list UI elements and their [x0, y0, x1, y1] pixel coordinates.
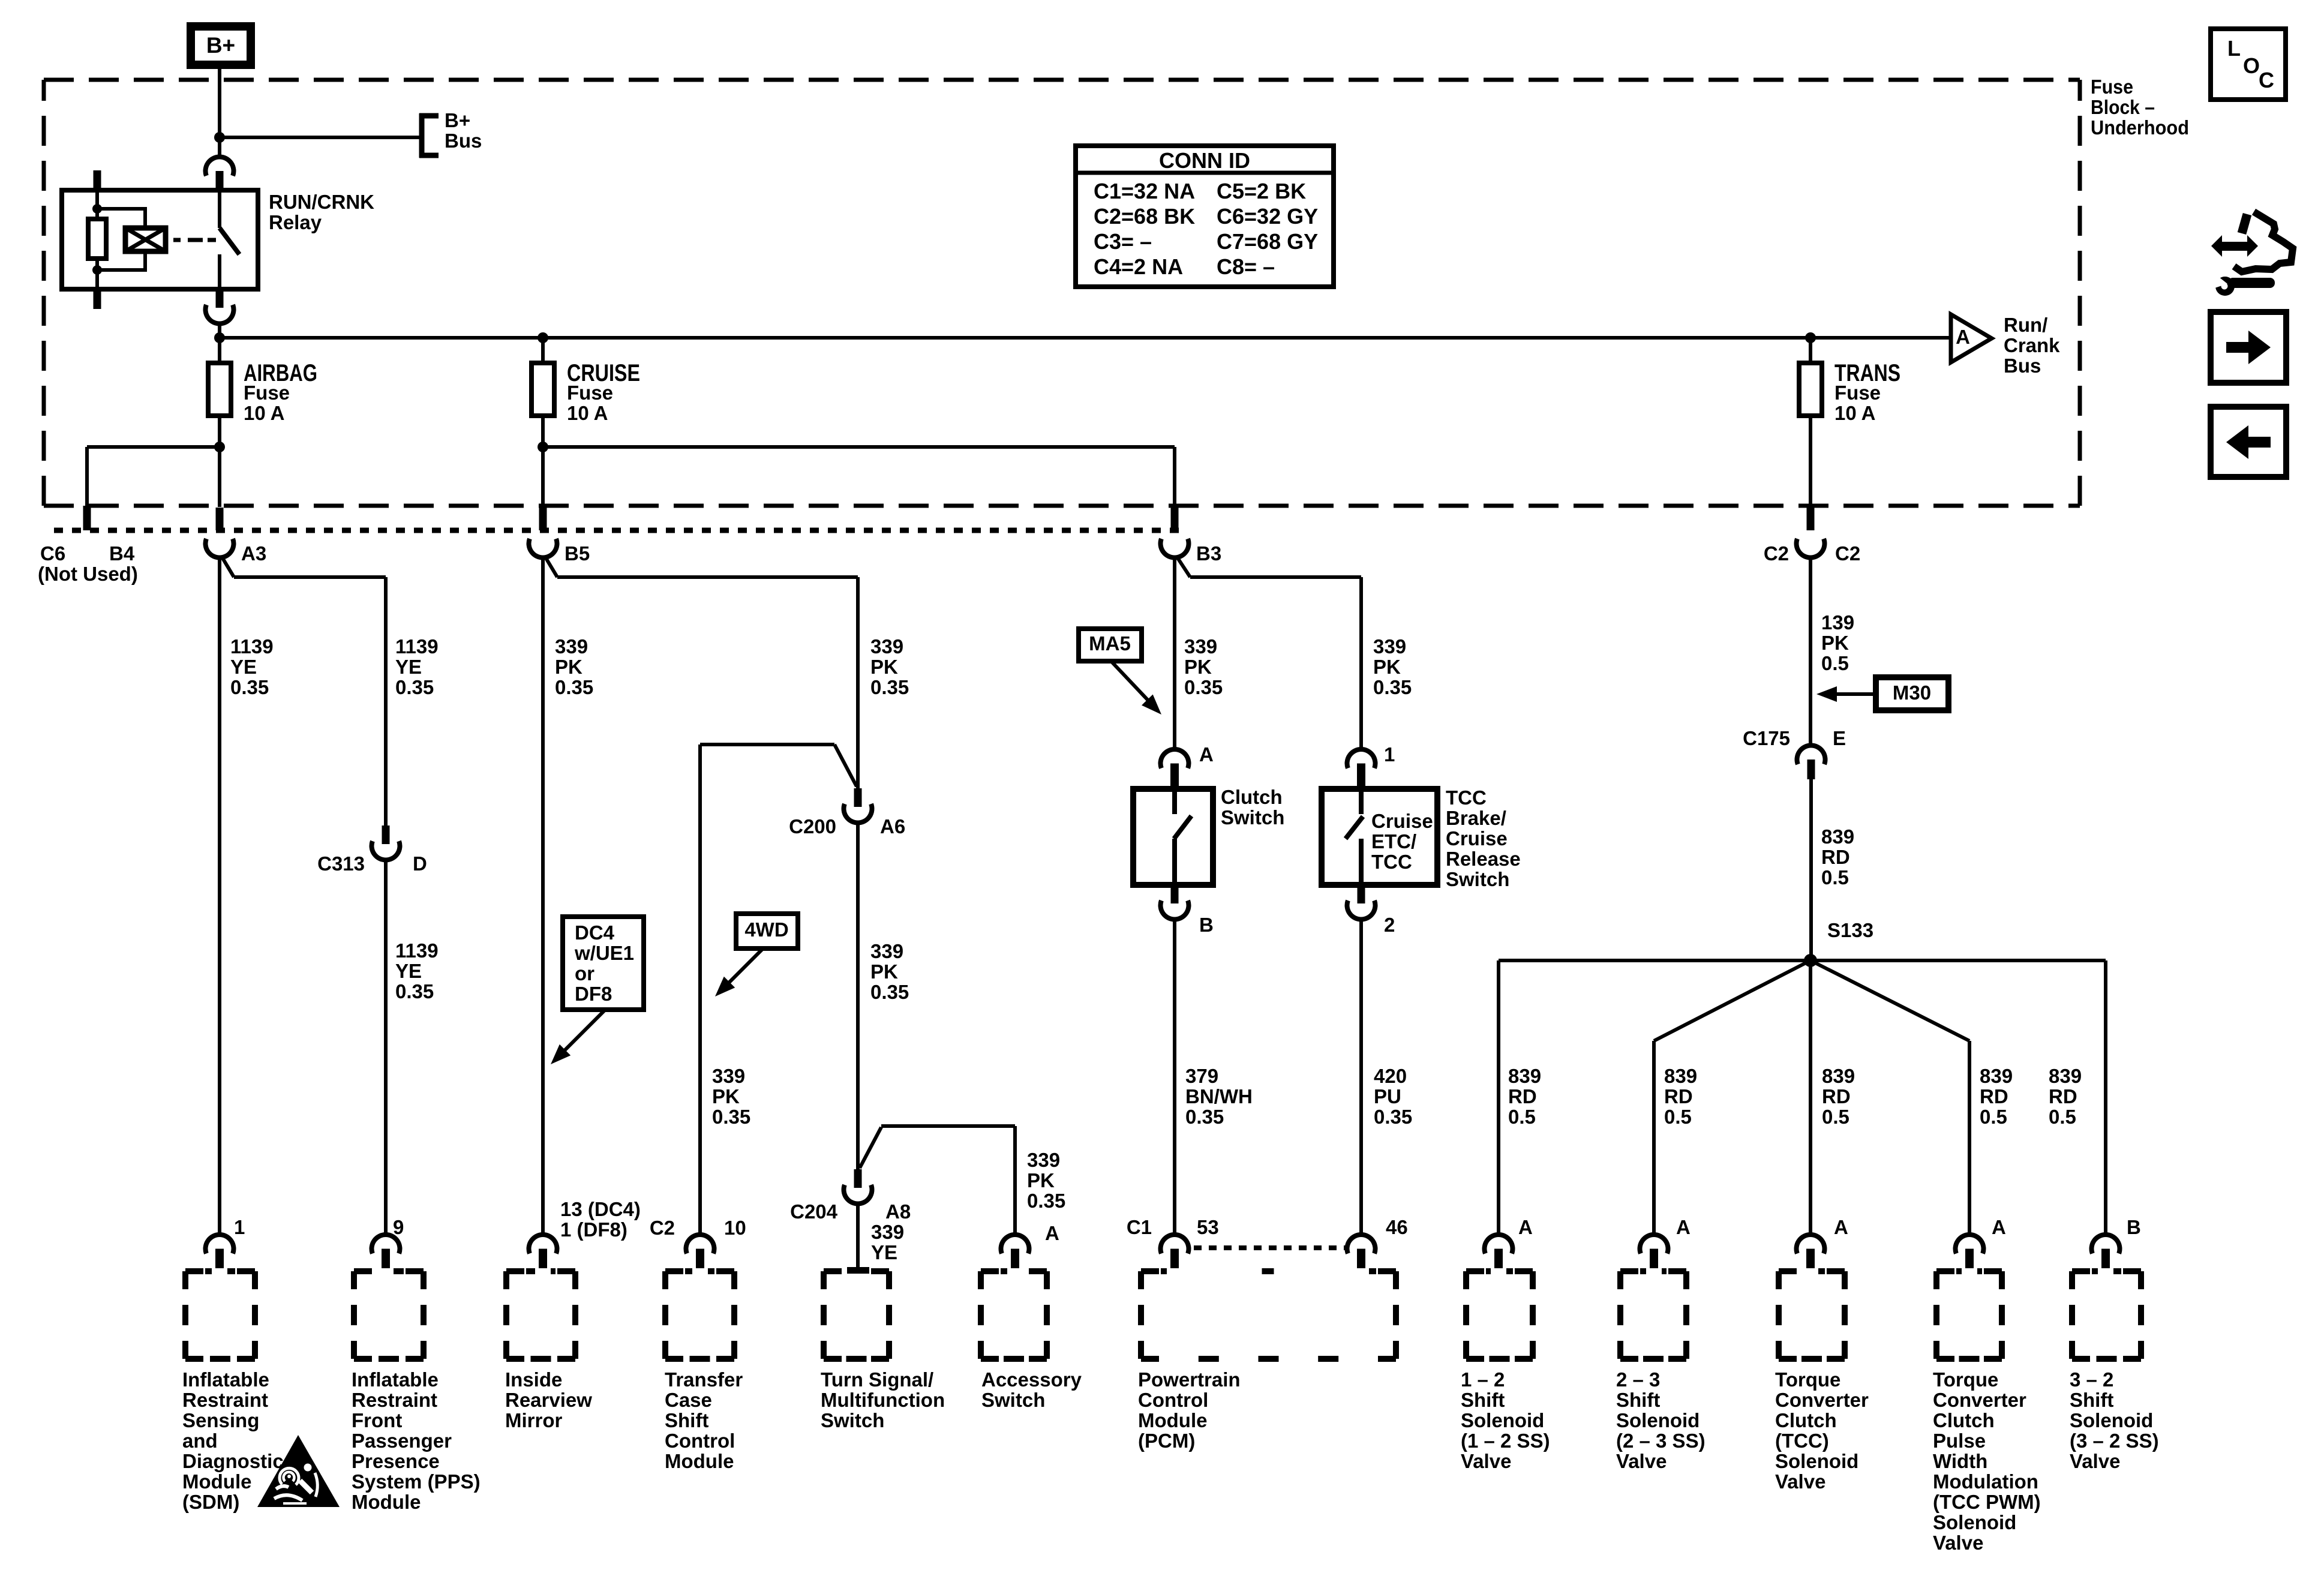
svg-text:B+: B+: [445, 109, 470, 131]
svg-text:Inflatable: Inflatable: [182, 1368, 269, 1391]
svg-text:Valve: Valve: [1461, 1450, 1511, 1472]
svg-text:339: 339: [870, 635, 903, 658]
svg-text:(TCC): (TCC): [1775, 1430, 1829, 1452]
svg-text:(SDM): (SDM): [182, 1491, 239, 1513]
svg-text:1139: 1139: [230, 635, 274, 658]
svg-text:3 – 2: 3 – 2: [2070, 1368, 2113, 1391]
svg-text:RD: RD: [2049, 1085, 2077, 1107]
svg-text:Clutch: Clutch: [1775, 1409, 1837, 1431]
svg-text:379: 379: [1185, 1065, 1218, 1087]
svg-text:Converter: Converter: [1933, 1389, 2026, 1411]
svg-text:RD: RD: [1664, 1085, 1693, 1107]
svg-text:Width: Width: [1933, 1450, 1987, 1472]
svg-text:Multifunction: Multifunction: [821, 1389, 945, 1411]
svg-text:Diagnostic: Diagnostic: [182, 1450, 284, 1472]
svg-text:53: 53: [1197, 1216, 1219, 1238]
svg-text:C204: C204: [790, 1200, 838, 1223]
svg-text:B: B: [2127, 1216, 2141, 1238]
svg-text:PU: PU: [1374, 1085, 1401, 1107]
svg-text:339: 339: [1184, 635, 1217, 658]
svg-text:RUN/CRNK: RUN/CRNK: [269, 191, 374, 213]
svg-text:Pulse: Pulse: [1933, 1430, 1986, 1452]
svg-text:Module: Module: [665, 1450, 734, 1472]
svg-text:C2: C2: [650, 1217, 675, 1239]
svg-text:B: B: [1199, 914, 1214, 936]
svg-text:L: L: [2227, 36, 2241, 61]
svg-text:0.35: 0.35: [555, 676, 593, 698]
svg-text:C200: C200: [789, 815, 836, 837]
svg-text:(PCM): (PCM): [1138, 1430, 1195, 1452]
svg-text:Switch: Switch: [821, 1409, 884, 1431]
svg-text:A3: A3: [241, 542, 266, 565]
svg-text:10: 10: [724, 1217, 746, 1239]
svg-text:Clutch: Clutch: [1933, 1409, 1995, 1431]
svg-text:Valve: Valve: [1775, 1470, 1825, 1493]
svg-text:4WD: 4WD: [744, 918, 788, 941]
svg-text:0.35: 0.35: [870, 981, 909, 1003]
svg-text:C6=32 GY: C6=32 GY: [1217, 204, 1318, 229]
svg-text:(TCC PWM): (TCC PWM): [1933, 1491, 2041, 1513]
svg-text:C6: C6: [40, 542, 65, 565]
svg-text:10 A: 10 A: [1834, 402, 1875, 424]
svg-text:Switch: Switch: [1221, 806, 1284, 828]
svg-text:0.5: 0.5: [1821, 866, 1849, 888]
svg-text:0.35: 0.35: [395, 980, 434, 1002]
svg-text:Restraint: Restraint: [352, 1389, 437, 1411]
svg-text:w/UE1: w/UE1: [574, 942, 634, 964]
svg-text:C7=68 GY: C7=68 GY: [1217, 229, 1318, 254]
svg-text:Shift: Shift: [665, 1409, 708, 1431]
svg-text:Cruise: Cruise: [1446, 827, 1508, 849]
svg-text:YE: YE: [871, 1241, 897, 1263]
svg-text:Run/: Run/: [2004, 314, 2047, 336]
svg-text:Solenoid: Solenoid: [1461, 1409, 1544, 1431]
svg-text:1 – 2: 1 – 2: [1461, 1368, 1505, 1391]
svg-text:A: A: [1045, 1222, 1059, 1244]
svg-text:C2=68 BK: C2=68 BK: [1094, 204, 1195, 229]
svg-text:Converter: Converter: [1775, 1389, 1869, 1411]
svg-text:MA5: MA5: [1089, 632, 1131, 655]
svg-text:0.5: 0.5: [1980, 1106, 2007, 1128]
svg-text:Valve: Valve: [1616, 1450, 1667, 1472]
svg-text:YE: YE: [230, 656, 257, 678]
svg-text:D: D: [413, 852, 427, 875]
svg-text:Solenoid: Solenoid: [2070, 1409, 2153, 1431]
svg-text:Solenoid: Solenoid: [1933, 1511, 2016, 1533]
svg-text:Inside: Inside: [505, 1368, 562, 1391]
svg-text:PK: PK: [870, 960, 898, 983]
svg-text:A: A: [1956, 326, 1970, 348]
svg-text:Modulation: Modulation: [1933, 1470, 2038, 1493]
svg-text:Fuse: Fuse: [244, 382, 290, 404]
svg-text:Powertrain: Powertrain: [1138, 1368, 1241, 1391]
svg-text:Clutch: Clutch: [1221, 786, 1283, 808]
svg-text:(2 – 3 SS): (2 – 3 SS): [1616, 1430, 1706, 1452]
svg-text:Passenger: Passenger: [352, 1430, 452, 1452]
svg-text:(1 – 2 SS): (1 – 2 SS): [1461, 1430, 1550, 1452]
svg-text:Rearview: Rearview: [505, 1389, 592, 1411]
svg-text:A: A: [1992, 1216, 2006, 1238]
svg-text:PK: PK: [555, 656, 582, 678]
svg-text:Switch: Switch: [981, 1389, 1045, 1411]
svg-text:C5=2 BK: C5=2 BK: [1217, 179, 1306, 203]
svg-text:PK: PK: [1027, 1169, 1055, 1191]
svg-text:839: 839: [1508, 1065, 1541, 1087]
svg-text:Bus: Bus: [2004, 355, 2041, 377]
svg-text:1 (DF8): 1 (DF8): [560, 1218, 627, 1241]
svg-text:0.5: 0.5: [1822, 1106, 1849, 1128]
svg-text:339: 339: [555, 635, 588, 658]
svg-text:Shift: Shift: [1616, 1389, 1660, 1411]
svg-text:Switch: Switch: [1446, 868, 1509, 890]
svg-text:0.5: 0.5: [1508, 1106, 1536, 1128]
svg-text:RD: RD: [1821, 846, 1850, 868]
svg-text:0.5: 0.5: [1821, 652, 1849, 674]
svg-text:0.5: 0.5: [2049, 1106, 2076, 1128]
svg-text:2 – 3: 2 – 3: [1616, 1368, 1660, 1391]
svg-text:A: A: [1518, 1216, 1533, 1238]
svg-text:C2: C2: [1764, 542, 1789, 565]
svg-text:Fuse: Fuse: [567, 382, 613, 404]
svg-text:839: 839: [1821, 825, 1854, 848]
svg-text:0.35: 0.35: [1374, 1106, 1412, 1128]
svg-text:10 A: 10 A: [244, 402, 284, 424]
svg-text:B+: B+: [206, 33, 235, 58]
svg-text:B4: B4: [109, 542, 135, 565]
svg-text:Mirror: Mirror: [505, 1409, 563, 1431]
svg-text:0.35: 0.35: [395, 676, 434, 698]
svg-text:0.35: 0.35: [230, 676, 269, 698]
svg-text:M30: M30: [1893, 682, 1931, 704]
svg-text:Inflatable: Inflatable: [352, 1368, 439, 1391]
svg-text:Cruise: Cruise: [1371, 810, 1433, 832]
svg-text:Fuse: Fuse: [1834, 382, 1881, 404]
svg-text:Block –: Block –: [2091, 96, 2155, 118]
svg-text:339: 339: [871, 1221, 904, 1243]
svg-text:B3: B3: [1196, 542, 1221, 565]
svg-text:Relay: Relay: [269, 211, 322, 233]
svg-text:PK: PK: [1373, 656, 1401, 678]
svg-text:1139: 1139: [395, 939, 439, 962]
svg-text:Sensing: Sensing: [182, 1409, 259, 1431]
svg-text:Control: Control: [1138, 1389, 1208, 1411]
svg-text:839: 839: [1822, 1065, 1855, 1087]
svg-text:Restraint: Restraint: [182, 1389, 268, 1411]
svg-text:(Not Used): (Not Used): [38, 563, 138, 585]
svg-text:A: A: [1834, 1216, 1848, 1238]
svg-text:Fuse: Fuse: [2091, 76, 2133, 98]
svg-text:Module: Module: [352, 1491, 421, 1513]
svg-text:Solenoid: Solenoid: [1616, 1409, 1700, 1431]
svg-text:PK: PK: [712, 1085, 740, 1107]
svg-text:A8: A8: [885, 1200, 911, 1223]
svg-text:YE: YE: [395, 656, 422, 678]
svg-text:46: 46: [1386, 1216, 1408, 1238]
svg-text:ETC/: ETC/: [1371, 830, 1416, 852]
svg-text:A: A: [1676, 1216, 1691, 1238]
svg-text:C313: C313: [317, 852, 365, 875]
svg-text:10 A: 10 A: [567, 402, 608, 424]
svg-text:RD: RD: [1822, 1085, 1851, 1107]
svg-text:C3= –: C3= –: [1094, 229, 1152, 254]
svg-text:Module: Module: [182, 1470, 251, 1493]
svg-text:339: 339: [1373, 635, 1406, 658]
svg-text:139: 139: [1821, 611, 1854, 634]
svg-text:(3 – 2 SS): (3 – 2 SS): [2070, 1430, 2159, 1452]
svg-text:Crank: Crank: [2004, 334, 2060, 356]
svg-text:0.35: 0.35: [712, 1106, 750, 1128]
svg-text:RD: RD: [1980, 1085, 2008, 1107]
svg-text:C: C: [2259, 68, 2274, 92]
svg-text:C2: C2: [1835, 542, 1860, 565]
svg-text:2: 2: [1384, 914, 1395, 936]
svg-text:CONN ID: CONN ID: [1159, 148, 1250, 173]
svg-text:Presence: Presence: [352, 1450, 440, 1472]
svg-text:0.5: 0.5: [1664, 1106, 1692, 1128]
svg-text:Case: Case: [665, 1389, 712, 1411]
svg-text:PK: PK: [870, 656, 898, 678]
svg-text:0.35: 0.35: [1373, 676, 1412, 698]
svg-text:Bus: Bus: [445, 130, 482, 152]
svg-text:DC4: DC4: [575, 921, 615, 944]
svg-text:839: 839: [2049, 1065, 2082, 1087]
svg-text:0.35: 0.35: [1027, 1190, 1065, 1212]
svg-text:Torque: Torque: [1775, 1368, 1840, 1391]
svg-text:B5: B5: [565, 542, 590, 565]
svg-text:0.35: 0.35: [1184, 676, 1223, 698]
svg-text:Solenoid: Solenoid: [1775, 1450, 1858, 1472]
svg-text:1: 1: [1384, 743, 1395, 766]
svg-text:O: O: [2243, 53, 2260, 78]
svg-text:839: 839: [1664, 1065, 1697, 1087]
svg-text:Front: Front: [352, 1409, 402, 1431]
svg-text:839: 839: [1980, 1065, 2013, 1087]
svg-text:1139: 1139: [395, 635, 439, 658]
svg-text:339: 339: [870, 940, 903, 962]
svg-text:0.35: 0.35: [1185, 1106, 1224, 1128]
svg-text:1: 1: [234, 1216, 245, 1238]
svg-text:YE: YE: [395, 960, 422, 982]
svg-text:Transfer: Transfer: [665, 1368, 743, 1391]
svg-text:C8= –: C8= –: [1217, 254, 1275, 279]
svg-text:Torque: Torque: [1933, 1368, 1998, 1391]
svg-text:Valve: Valve: [1933, 1532, 1983, 1554]
svg-text:Turn Signal/: Turn Signal/: [821, 1368, 933, 1391]
svg-text:Valve: Valve: [2070, 1450, 2120, 1472]
svg-text:Accessory: Accessory: [981, 1368, 1082, 1391]
svg-text:PK: PK: [1821, 632, 1849, 654]
svg-text:Shift: Shift: [2070, 1389, 2113, 1411]
svg-text:Brake/: Brake/: [1446, 807, 1506, 829]
svg-text:BN/WH: BN/WH: [1185, 1085, 1253, 1107]
svg-text:339: 339: [1027, 1149, 1060, 1171]
svg-text:TCC: TCC: [1371, 851, 1412, 873]
svg-text:C4=2 NA: C4=2 NA: [1094, 254, 1183, 279]
svg-text:Underhood: Underhood: [2091, 116, 2189, 139]
svg-text:13 (DC4): 13 (DC4): [560, 1198, 641, 1220]
svg-text:339: 339: [712, 1065, 745, 1087]
svg-text:Module: Module: [1138, 1409, 1207, 1431]
svg-text:C1=32 NA: C1=32 NA: [1094, 179, 1195, 203]
svg-text:A: A: [1199, 743, 1214, 766]
svg-text:RD: RD: [1508, 1085, 1537, 1107]
svg-text:Shift: Shift: [1461, 1389, 1505, 1411]
svg-text:E: E: [1833, 727, 1846, 749]
svg-text:and: and: [182, 1430, 218, 1452]
svg-text:DF8: DF8: [575, 983, 612, 1005]
svg-text:S133: S133: [1827, 919, 1873, 941]
svg-text:Control: Control: [665, 1430, 735, 1452]
svg-text:or: or: [575, 962, 594, 984]
svg-text:C175: C175: [1743, 727, 1790, 749]
svg-text:System (PPS): System (PPS): [352, 1470, 481, 1493]
svg-text:A6: A6: [880, 815, 905, 837]
svg-text:TCC: TCC: [1446, 786, 1487, 809]
svg-text:PK: PK: [1184, 656, 1212, 678]
svg-text:420: 420: [1374, 1065, 1407, 1087]
svg-text:Release: Release: [1446, 848, 1521, 870]
svg-text:C1: C1: [1127, 1216, 1152, 1238]
svg-text:0.35: 0.35: [870, 676, 909, 698]
